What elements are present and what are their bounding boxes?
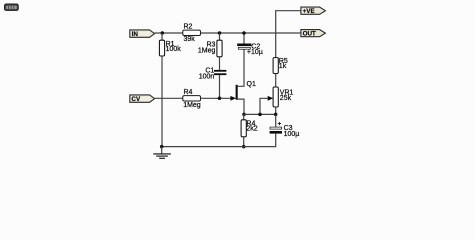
wire R1 column (rail to box)	[161, 33, 163, 40]
svg-text:+VE: +VE	[303, 8, 315, 15]
wire R4b top lead	[243, 114, 245, 119]
svg-text:CV: CV	[131, 96, 141, 103]
gate arrow of Q1	[230, 96, 236, 101]
wire R4 to gate junction	[201, 97, 232, 99]
watermark badge	[5, 4, 19, 10]
junction dot at R3 top	[218, 31, 222, 35]
wire mid rail	[244, 113, 276, 115]
svg-text:39k: 39k	[184, 36, 196, 43]
resistor R3	[198, 40, 222, 57]
svg-text:R4: R4	[184, 89, 193, 96]
wire C3 bottom to ground rail	[162, 134, 276, 147]
svg-text:2k2: 2k2	[246, 126, 257, 133]
svg-text:100n: 100n	[199, 73, 215, 80]
capacitor C1	[199, 68, 227, 81]
connector tag CV	[130, 95, 155, 103]
junction dot C2 top	[242, 31, 246, 35]
potentiometer VR1	[273, 87, 293, 107]
junction dot VR1 bottom	[274, 113, 278, 117]
svg-text:Q1: Q1	[247, 81, 256, 88]
transistor Q1	[236, 50, 256, 115]
svg-text:100k: 100k	[166, 46, 182, 53]
resistor R2	[183, 23, 201, 43]
junction dot wiper	[258, 113, 262, 117]
resistor R1	[159, 40, 181, 56]
svg-text:OUT: OUT	[303, 31, 316, 38]
wire R4b bottom lead	[243, 137, 245, 147]
connector tag +VE	[301, 7, 326, 15]
wire R1 bottom to ground rail	[161, 56, 163, 147]
svg-text:1Meg: 1Meg	[183, 102, 201, 109]
resistor R5	[273, 58, 288, 74]
wire R3 top lead	[219, 33, 221, 40]
junction dot at R1 top	[161, 31, 165, 35]
wire C1 bottom to gate node	[219, 75, 221, 98]
capacitor C3	[270, 122, 300, 138]
svg-text:25k: 25k	[280, 95, 292, 102]
junction dot source node	[242, 113, 246, 117]
junction dot ground	[160, 145, 164, 149]
capacitor C2	[237, 33, 263, 56]
svg-text:1Meg: 1Meg	[198, 48, 216, 55]
wire C3 top lead	[275, 114, 277, 127]
wire IN to R2	[155, 32, 183, 34]
junction dot R4b ground	[242, 145, 246, 149]
junction dot gate node	[218, 97, 222, 101]
connector tag IN	[130, 30, 155, 38]
ground	[153, 147, 171, 159]
svg-text:IN: IN	[132, 31, 139, 38]
wire VR1 wiper	[260, 98, 268, 114]
svg-text:+10µ: +10µ	[247, 49, 263, 56]
wire R5 to VR1	[275, 74, 277, 88]
wire R3 bottom to C1	[219, 57, 221, 70]
resistor R4 1Meg	[183, 89, 201, 109]
svg-text:R2: R2	[184, 23, 193, 30]
wire +VE supply column	[276, 11, 301, 58]
svg-text:100µ: 100µ	[284, 131, 300, 138]
svg-text:1k: 1k	[279, 63, 287, 70]
wire CV to R4	[155, 97, 183, 99]
connector tag OUT	[301, 30, 326, 38]
wire VR1 bottom	[275, 107, 277, 114]
wire R2 to OUT tag	[201, 32, 301, 34]
resistor R4 2k2	[241, 120, 258, 137]
wiper arrow	[268, 96, 274, 101]
